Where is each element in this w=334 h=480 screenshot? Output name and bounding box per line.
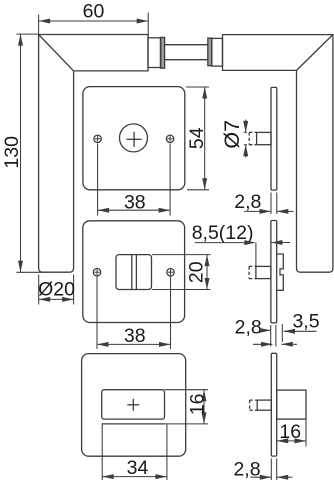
- svg-text:34: 34: [127, 457, 149, 479]
- svg-text:3,5: 3,5: [292, 310, 319, 332]
- svg-text:38: 38: [124, 191, 146, 213]
- svg-text:54: 54: [186, 127, 208, 149]
- svg-text:Ø20: Ø20: [38, 278, 75, 300]
- svg-text:2,8: 2,8: [233, 459, 260, 480]
- svg-text:8,5(12): 8,5(12): [192, 222, 254, 244]
- svg-text:130: 130: [1, 136, 23, 169]
- svg-text:16: 16: [279, 421, 301, 443]
- svg-text:60: 60: [83, 1, 105, 23]
- svg-text:38: 38: [124, 325, 146, 347]
- svg-text:20: 20: [186, 261, 208, 283]
- svg-text:2,8: 2,8: [235, 316, 262, 338]
- svg-text:2,8: 2,8: [234, 191, 261, 213]
- svg-text:16: 16: [186, 393, 208, 415]
- svg-text:Ø7: Ø7: [220, 120, 244, 149]
